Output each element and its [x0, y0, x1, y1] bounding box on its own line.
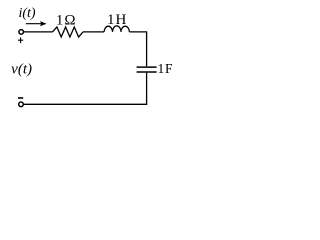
wire : inductor to top-right corner and down to capacitor [129, 32, 146, 66]
plus polarity mark [18, 37, 23, 43]
inductor L 1 H (three humps) [104, 26, 129, 32]
svg-text:i(t): i(t) [18, 6, 35, 21]
wire : resistor to inductor [83, 31, 104, 33]
wire : capacitor down to bottom-right corner and along bottom [24, 73, 147, 105]
svg-text:v(t): v(t) [11, 61, 32, 77]
svg-text:H: H [115, 12, 126, 28]
current direction arrow [26, 23, 42, 25]
resistor R 1 ohm (zigzag) [53, 27, 84, 37]
node B : negative input terminal (open circle) [19, 102, 24, 107]
svg-text:1: 1 [107, 12, 115, 28]
svg-text:Ω: Ω [64, 12, 75, 28]
svg-text:1: 1 [56, 12, 64, 28]
wire : top terminal to resistor [24, 31, 53, 33]
capacitor C 1 F (two plates) [137, 66, 157, 68]
minus polarity mark [18, 97, 23, 99]
svg-text:1: 1 [158, 61, 165, 76]
svg-text:F: F [165, 61, 173, 76]
node A : positive input terminal (open circle) [19, 30, 24, 35]
